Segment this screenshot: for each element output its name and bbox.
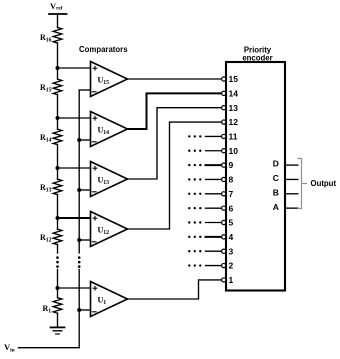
svg-text:10: 10 <box>229 146 239 156</box>
svg-text:Comparators: Comparators <box>79 45 128 54</box>
svg-text:8: 8 <box>229 175 234 185</box>
svg-text:R1: R1 <box>43 304 52 315</box>
svg-text:R12: R12 <box>40 233 52 244</box>
svg-text:14: 14 <box>229 88 239 98</box>
svg-text:A: A <box>273 202 279 212</box>
svg-text:5: 5 <box>229 218 234 228</box>
svg-text:15: 15 <box>229 74 239 84</box>
svg-text:R13: R13 <box>40 183 52 194</box>
svg-text:7: 7 <box>229 189 234 199</box>
svg-text:Vin: Vin <box>4 342 15 354</box>
svg-text:6: 6 <box>229 203 234 213</box>
svg-text:11: 11 <box>229 132 238 142</box>
svg-text:12: 12 <box>229 117 239 127</box>
svg-text:B: B <box>273 187 279 197</box>
svg-text:1: 1 <box>229 275 234 285</box>
svg-text:encoder: encoder <box>242 54 272 63</box>
svg-text:Vref: Vref <box>50 1 63 12</box>
svg-text:3: 3 <box>229 246 234 256</box>
svg-text:13: 13 <box>229 103 239 113</box>
svg-text:4: 4 <box>229 232 234 242</box>
svg-text:9: 9 <box>229 160 234 170</box>
svg-text:D: D <box>273 159 279 169</box>
svg-text:R16: R16 <box>40 33 52 44</box>
svg-text:Output: Output <box>311 179 337 188</box>
svg-text:2: 2 <box>229 261 234 271</box>
svg-text:R15: R15 <box>40 83 52 94</box>
svg-text:C: C <box>273 173 279 183</box>
svg-text:R14: R14 <box>40 133 52 144</box>
